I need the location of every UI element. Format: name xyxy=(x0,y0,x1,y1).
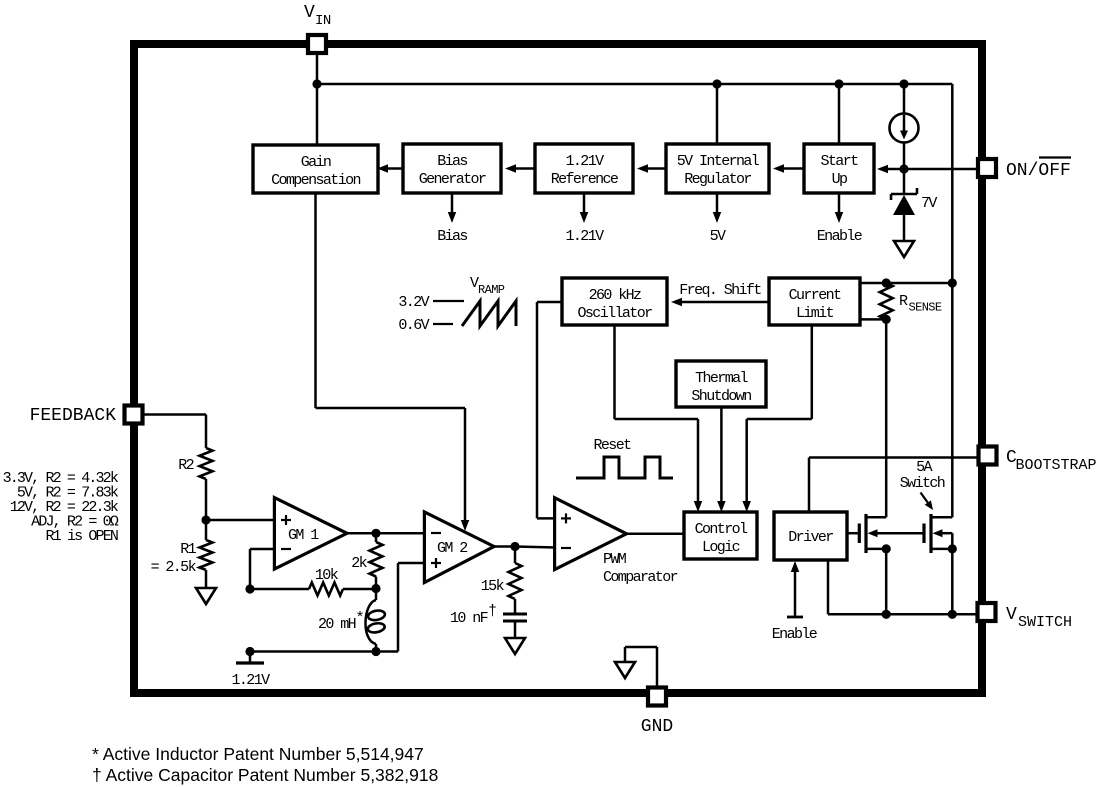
wire oscillator to PWM plus input xyxy=(537,302,562,518)
resistor R2 xyxy=(200,448,213,479)
svg-text:SENSE: SENSE xyxy=(909,301,942,315)
svg-text:V: V xyxy=(1006,605,1017,625)
svg-text:*: * xyxy=(356,610,364,627)
node bus-startup xyxy=(834,79,843,88)
pin pad GND xyxy=(648,688,666,706)
block Control Logic xyxy=(684,512,757,559)
block Gain Compensation xyxy=(253,145,378,193)
svg-text:Limit: Limit xyxy=(796,305,834,322)
wire GM1 output to GM2 minus xyxy=(376,532,426,535)
ground below R1 xyxy=(196,588,216,604)
capacitor 10nF xyxy=(503,614,527,621)
pin pad CBOOTSTRAP xyxy=(979,447,997,465)
wire driver to bootstrap xyxy=(809,458,979,513)
ground arrow near GND xyxy=(615,662,635,678)
svg-text:Logic: Logic xyxy=(702,539,740,556)
wire driver bottom to switch rail xyxy=(827,560,830,614)
block 260kHz Oscillator xyxy=(562,278,667,325)
block Start Up xyxy=(804,144,874,193)
svg-text:Start: Start xyxy=(820,153,858,170)
label 3.2V xyxy=(398,294,429,311)
wire GM2 output xyxy=(494,545,515,548)
wire current limit to RSENSE bottom xyxy=(860,318,886,321)
wire 2k to node xyxy=(375,577,378,589)
svg-text:0.6V: 0.6V xyxy=(398,317,429,334)
wire arrow into Start Up xyxy=(877,165,904,174)
label Enable under driver xyxy=(772,626,818,643)
node RSENSE top right xyxy=(948,278,957,287)
svg-text:3.2V: 3.2V xyxy=(398,294,429,311)
label Enable under Start Up xyxy=(817,228,863,245)
node Q1 source rail xyxy=(882,610,891,619)
svg-text:Driver: Driver xyxy=(788,529,833,546)
wire RSENSE bottom down to switch drain xyxy=(885,319,888,517)
wire RSENSE top to VIN line xyxy=(886,282,952,285)
wire 1.21V stub xyxy=(249,652,252,664)
block Bias Generator xyxy=(403,144,501,193)
node Q2 source xyxy=(948,544,957,553)
node VIN junction xyxy=(312,79,321,88)
svg-text:2k: 2k xyxy=(351,555,367,572)
svg-text:R: R xyxy=(899,293,908,310)
resistor 2k xyxy=(370,542,383,577)
svg-text:= 2.5k: = 2.5k xyxy=(151,559,197,576)
svg-text:10 nF: 10 nF xyxy=(450,610,488,627)
wire arrow 5VReg to 1.21VRef xyxy=(637,164,666,173)
wire Q2 source down xyxy=(951,549,954,614)
svg-text:Up: Up xyxy=(832,171,847,188)
wire node to zener xyxy=(903,169,906,194)
wire GM1out to 2k xyxy=(375,533,378,542)
ground bar 1.21V xyxy=(236,661,264,664)
svg-text:R1: R1 xyxy=(180,541,196,558)
node bus-current-source xyxy=(899,79,908,88)
wire arrow 1.21VRef to BiasGen xyxy=(505,164,535,173)
wire gain compensation to GM2 xyxy=(316,193,470,531)
transistor Q1 xyxy=(859,514,924,553)
wire GM1 output xyxy=(347,532,376,535)
label 2k xyxy=(351,555,367,572)
wire R1 to ground xyxy=(205,570,208,588)
wire oscillator to control logic xyxy=(615,325,703,512)
node RSENSE top xyxy=(882,278,891,287)
pin pad VSWITCH xyxy=(978,603,996,621)
svg-text:1.21V: 1.21V xyxy=(565,228,604,245)
block 1.21V Reference xyxy=(535,144,633,193)
reset waveform xyxy=(576,457,673,478)
node 2k-10k-inductor xyxy=(371,584,380,593)
svg-text:Generator: Generator xyxy=(419,171,486,188)
label 5A Switch xyxy=(900,459,945,492)
svg-text:PWM: PWM xyxy=(603,551,627,568)
svg-text:Switch: Switch xyxy=(900,475,945,492)
label 0.6V xyxy=(398,317,429,334)
svg-text:GND: GND xyxy=(641,717,673,737)
wire 15k to capacitor xyxy=(514,599,517,614)
svg-text:Comparator: Comparator xyxy=(603,569,678,586)
svg-text:GM 1: GM 1 xyxy=(288,527,319,544)
footnote capacitor patent xyxy=(92,765,438,785)
svg-text:R1 is OPEN: R1 is OPEN xyxy=(45,528,117,545)
wire 0.6V level xyxy=(433,323,453,325)
svg-text:† Active Capacitor Patent Numb: † Active Capacitor Patent Number 5,382,9… xyxy=(92,765,438,785)
label 5V xyxy=(710,228,726,245)
svg-text:Freq. Shift: Freq. Shift xyxy=(679,282,761,299)
label Freq. Shift xyxy=(679,282,761,299)
zener diode 7V xyxy=(891,188,917,215)
svg-text:* Active Inductor Patent Numbe: * Active Inductor Patent Number 5,514,94… xyxy=(92,744,424,764)
svg-text:Regulator: Regulator xyxy=(684,171,751,188)
node Q1 source xyxy=(882,544,891,553)
node feedback divider xyxy=(201,515,210,524)
svg-text:Enable: Enable xyxy=(772,626,818,643)
label Reset xyxy=(593,437,631,454)
op-amp GM1 xyxy=(274,498,347,569)
pin label CBOOTSTRAP xyxy=(1006,448,1097,474)
wire arrow Freq Shift xyxy=(671,298,769,307)
svg-text:Reference: Reference xyxy=(551,171,619,188)
block Driver xyxy=(774,512,847,560)
pin label VIN xyxy=(304,3,331,29)
block 5V Internal Regulator xyxy=(666,144,769,193)
svg-text:Enable: Enable xyxy=(817,228,863,245)
pin label VSWITCH xyxy=(1006,605,1072,631)
wire bottom rail 1.21V xyxy=(250,563,426,652)
svg-text:Gain: Gain xyxy=(301,154,331,171)
wire Q1 source down xyxy=(885,549,888,614)
resistor RSENSE xyxy=(880,283,893,319)
svg-text:RAMP: RAMP xyxy=(478,283,505,297)
svg-text:5A: 5A xyxy=(916,459,932,476)
resistor 10k xyxy=(309,583,343,596)
svg-text:ON/OFF: ON/OFF xyxy=(1006,161,1071,181)
svg-text:1.21V: 1.21V xyxy=(231,672,270,689)
svg-text:FEEDBACK: FEEDBACK xyxy=(30,406,117,426)
svg-text:R2: R2 xyxy=(178,457,193,474)
label Bias xyxy=(437,228,467,245)
wire GND pad up xyxy=(625,647,657,687)
svg-text:5V: 5V xyxy=(710,228,726,245)
ground below capacitor xyxy=(505,638,525,654)
label R1 xyxy=(180,541,196,558)
wire arrow 1.21V output down xyxy=(580,193,589,223)
wire VIN down to Gain Compensation xyxy=(316,53,319,145)
arrow to MOSFET xyxy=(921,493,934,511)
wire current limit to control logic xyxy=(742,325,811,512)
wire driver to gate Q1 xyxy=(847,532,859,535)
block Current Limit xyxy=(769,278,860,325)
label 7V xyxy=(921,195,937,212)
node GM1 output xyxy=(371,529,380,538)
svg-text:10k: 10k xyxy=(315,567,339,584)
footnote inductor patent xyxy=(92,744,424,764)
node RSENSE bottom xyxy=(882,315,891,324)
svg-text:SWITCH: SWITCH xyxy=(1018,614,1072,631)
node GM2 output xyxy=(510,542,519,551)
wire thermal shutdown to control logic xyxy=(717,407,726,512)
label 1.21V reference node xyxy=(231,672,270,689)
label 1.21V xyxy=(565,228,604,245)
label 10k xyxy=(315,567,339,584)
node bus-5V-regulator xyxy=(712,79,721,88)
label 15k xyxy=(481,578,505,595)
wire 10k left segment xyxy=(250,588,309,591)
node Q2 source rail xyxy=(948,610,957,619)
svg-text:Reset: Reset xyxy=(593,437,631,454)
block Thermal Shutdown xyxy=(676,361,766,407)
wire PWM output to control logic xyxy=(627,533,685,536)
pin pad ON/OFF xyxy=(978,159,996,177)
wire ON/OFF to node xyxy=(904,168,978,171)
wire node to GM1 plus xyxy=(206,519,276,522)
wire node to R1 xyxy=(205,520,208,540)
wire stub bus to Start Up xyxy=(838,84,841,144)
svg-text:Oscillator: Oscillator xyxy=(577,305,652,322)
pin label GND xyxy=(641,717,673,737)
svg-text:5V Internal: 5V Internal xyxy=(677,153,760,170)
svg-text:20 mH: 20 mH xyxy=(318,616,356,633)
svg-text:Bias: Bias xyxy=(437,228,467,245)
svg-text:Compensation: Compensation xyxy=(271,172,360,189)
svg-text:GM 2: GM 2 xyxy=(437,540,467,557)
wire 10k to 2k node xyxy=(343,588,376,591)
label feedback resistor table xyxy=(3,470,119,545)
svg-text:15k: 15k xyxy=(481,578,505,595)
node 1.21V rail left xyxy=(245,647,254,656)
label 20mH xyxy=(318,610,364,633)
wire bus to current source xyxy=(903,84,906,114)
wire current limit to RSENSE top xyxy=(860,282,886,285)
node GM1 minus to 10k xyxy=(245,584,254,593)
svg-text:Bias: Bias xyxy=(437,153,467,170)
sawtooth VRAMP waveform xyxy=(462,301,516,326)
wire FEEDBACK to R2 xyxy=(142,415,206,449)
label R1 value xyxy=(151,559,197,576)
wire GM2out to 15k xyxy=(514,547,517,564)
wire VIN bus down right side xyxy=(951,84,954,517)
wire stub bus to 5V Internal Regulator xyxy=(716,84,719,144)
current source xyxy=(890,114,919,143)
wire switch output rail xyxy=(828,613,978,616)
resistor 15k xyxy=(509,563,522,599)
ground arrow below zener xyxy=(894,241,914,257)
comparator PWM xyxy=(555,498,627,570)
pin label ON/OFF xyxy=(1006,158,1071,182)
label PWM Comparator xyxy=(603,551,678,586)
wire enable arrow into driver xyxy=(787,561,803,617)
label R2 xyxy=(178,457,193,474)
wire VIN top bus xyxy=(317,83,952,86)
svg-text:7V: 7V xyxy=(921,195,937,212)
svg-text:Current: Current xyxy=(789,287,841,304)
IC boundary box xyxy=(134,44,982,693)
svg-text:Thermal: Thermal xyxy=(695,370,748,387)
wire GM2 output to PWM minus xyxy=(515,547,556,548)
node inductor bottom xyxy=(371,647,380,656)
transistor Q2 xyxy=(924,514,952,553)
inductor 20mH xyxy=(365,589,385,652)
wire arrow 5V output down xyxy=(713,193,722,223)
wire arrow Bias output down xyxy=(448,193,457,223)
pin pad VIN xyxy=(308,35,326,53)
svg-text:1.21V: 1.21V xyxy=(565,153,604,170)
wire capacitor to ground xyxy=(514,621,517,638)
resistor R1 xyxy=(200,540,213,570)
pin label FEEDBACK xyxy=(30,406,117,426)
node ON/OFF junction xyxy=(899,164,908,173)
label 10nF xyxy=(450,603,496,627)
label VRAMP xyxy=(470,275,505,297)
svg-text:Control: Control xyxy=(695,521,748,538)
wire current source to ON/OFF node xyxy=(903,142,906,169)
wire 3.2V level xyxy=(433,300,464,302)
svg-text:V: V xyxy=(304,3,315,23)
pin pad FEEDBACK xyxy=(125,406,143,424)
svg-text:260 kHz: 260 kHz xyxy=(589,287,641,304)
wire arrow StartUp to 5VReg xyxy=(773,164,804,173)
label RSENSE xyxy=(899,293,942,315)
svg-text:Shutdown: Shutdown xyxy=(691,388,751,405)
wire GM1 minus input xyxy=(250,549,274,589)
wire arrow Enable output down xyxy=(835,193,844,223)
wire zener to ground arrow xyxy=(903,215,906,241)
svg-text:IN: IN xyxy=(315,13,331,29)
svg-text:BOOTSTRAP: BOOTSTRAP xyxy=(1016,457,1097,474)
wire arrow BiasGen to GainComp xyxy=(377,164,403,173)
op-amp GM2 xyxy=(424,512,494,583)
svg-text:†: † xyxy=(488,603,496,620)
wire R2 to node xyxy=(205,479,208,520)
